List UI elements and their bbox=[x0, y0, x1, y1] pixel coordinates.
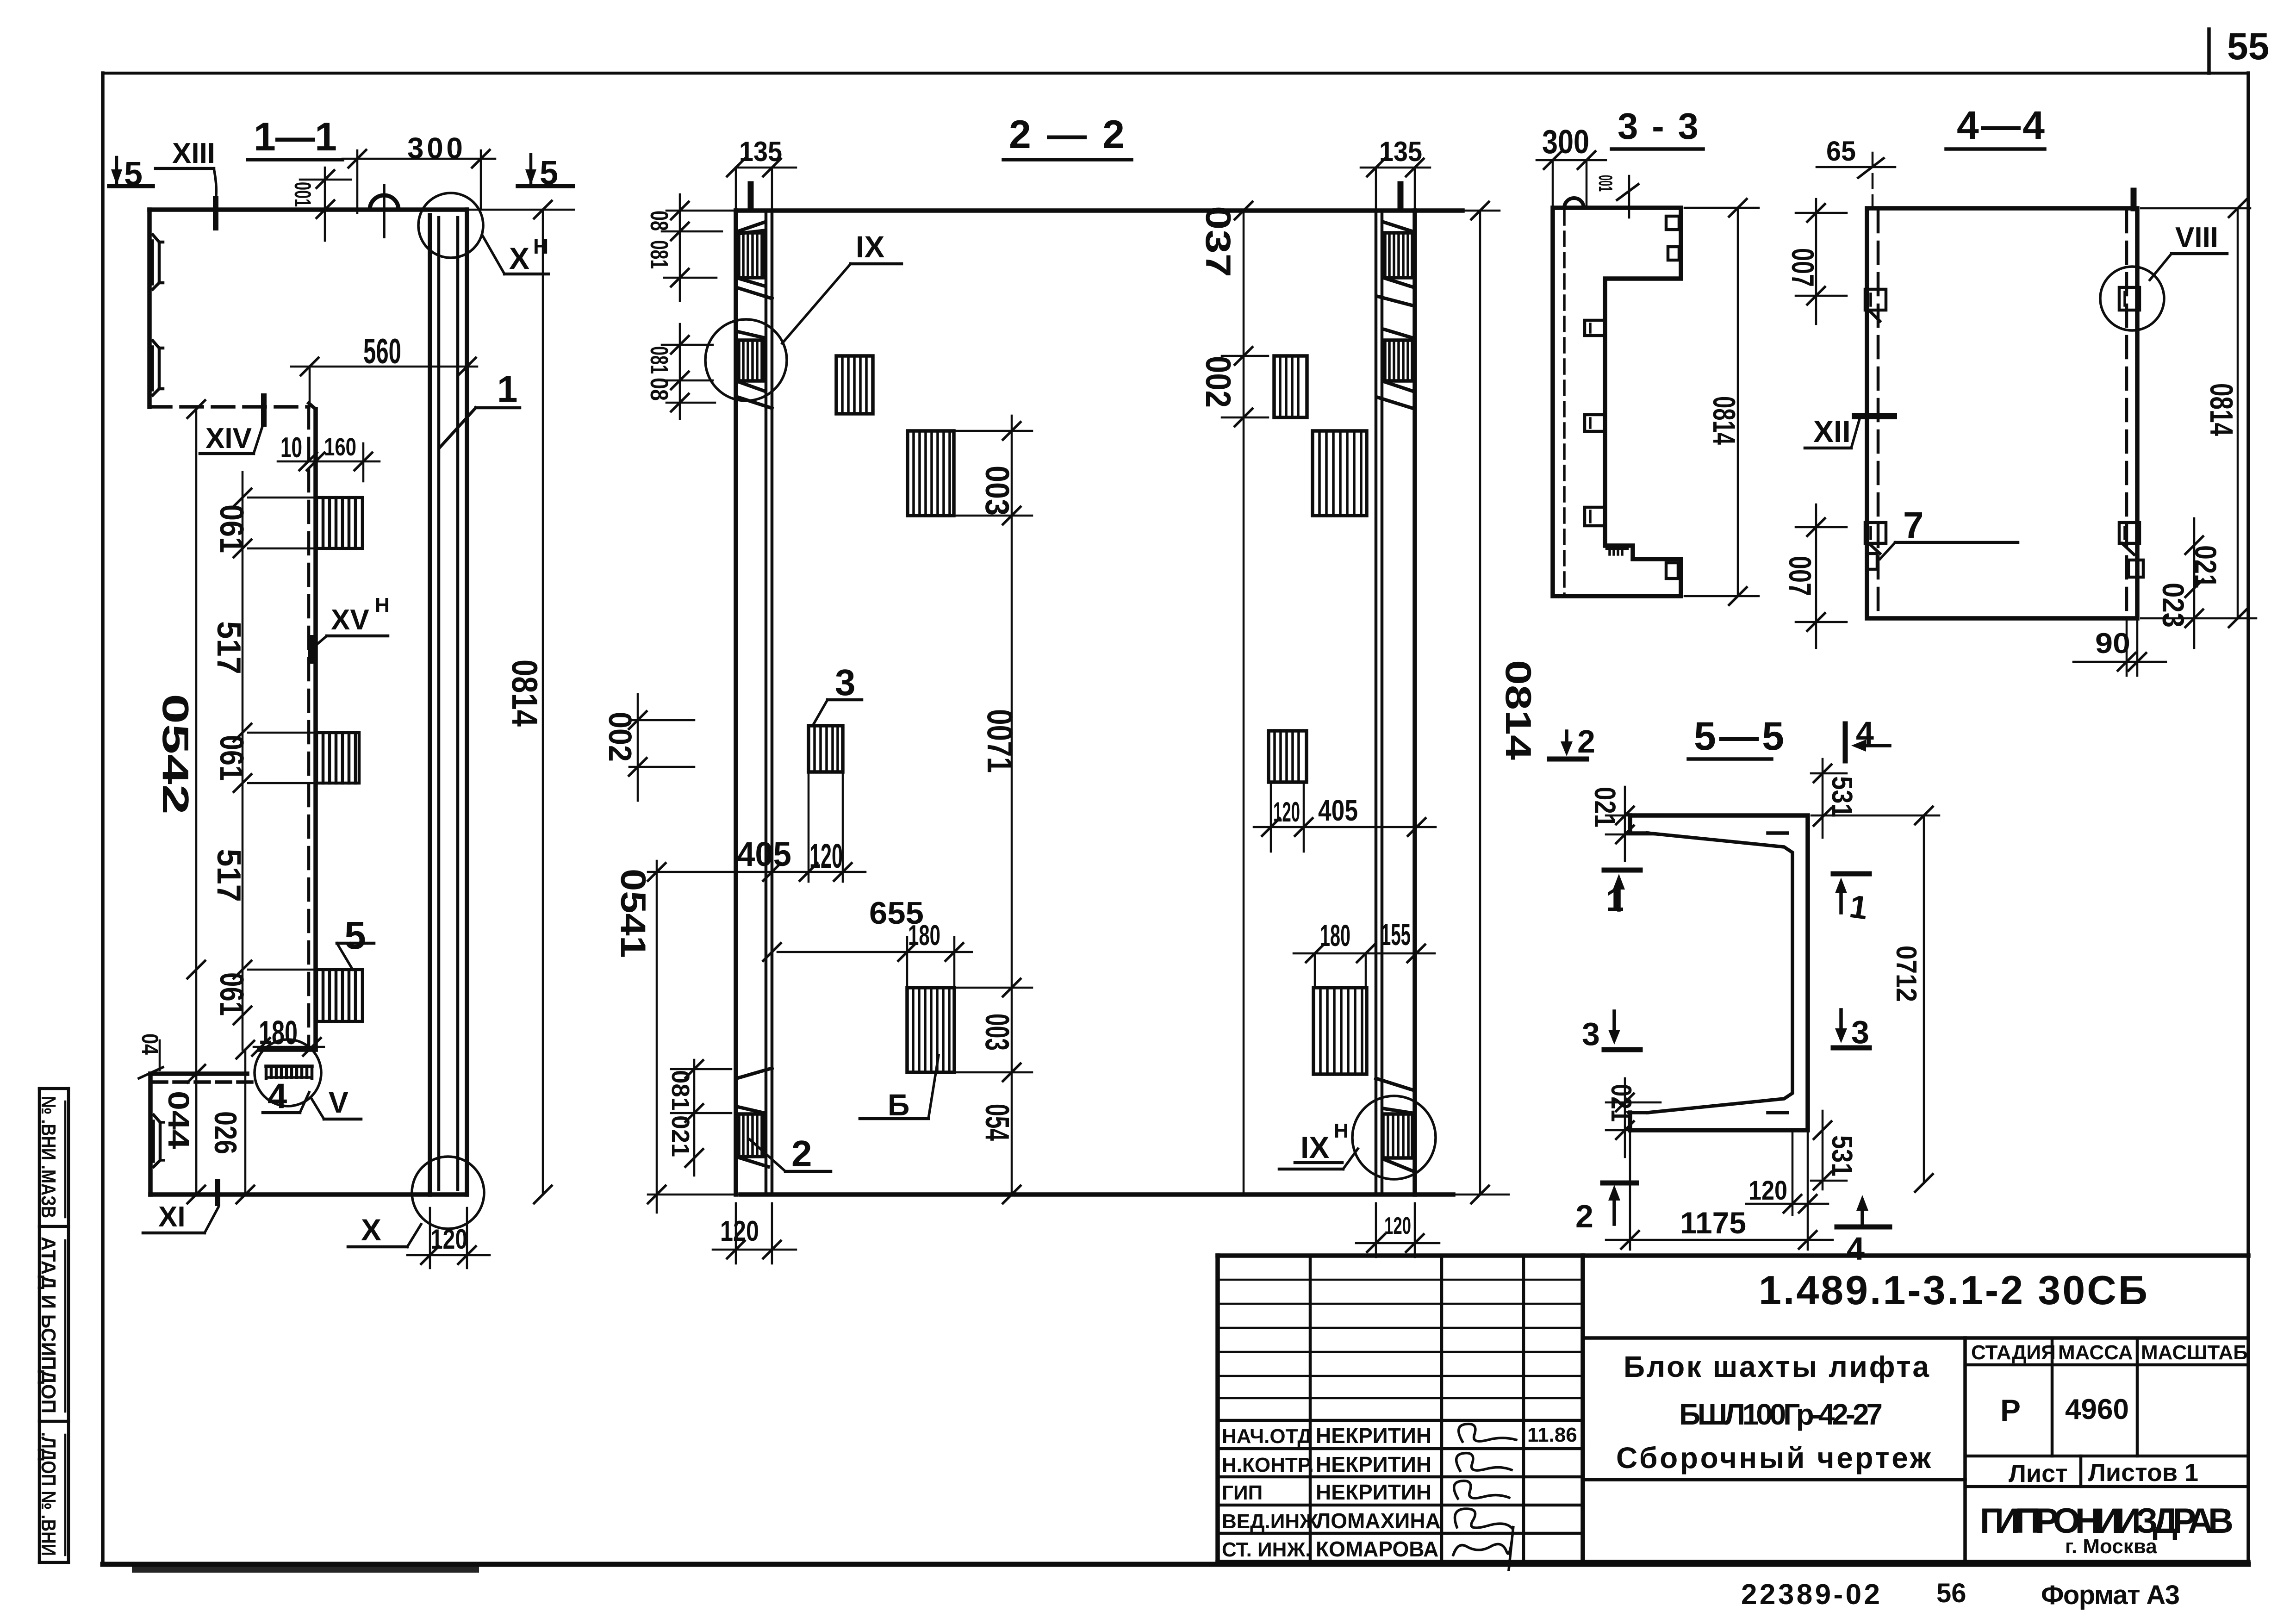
svg-text:СТ. ИНЖ.: СТ. ИНЖ. bbox=[1222, 1538, 1311, 1561]
svg-text:1175: 1175 bbox=[1680, 1206, 1746, 1240]
right big box bbox=[1313, 988, 1367, 1074]
svg-text:037: 037 bbox=[1198, 206, 1238, 277]
svg-text:Сборочный чертеж: Сборочный чертеж bbox=[1616, 1441, 1931, 1475]
step corner bbox=[309, 403, 316, 409]
svg-text:007: 007 bbox=[1785, 248, 1820, 287]
left chain dims 180 80 lower bbox=[679, 324, 681, 419]
svg-text:003: 003 bbox=[978, 466, 1015, 516]
big code cell bbox=[1583, 1336, 2248, 1340]
dim 4180 bbox=[1685, 207, 1759, 209]
svg-text:002: 002 bbox=[1198, 356, 1238, 408]
svg-text:КОМАРОВА: КОМАРОВА bbox=[1316, 1537, 1438, 1561]
svg-text:55: 55 bbox=[2227, 25, 2269, 68]
chain dim line x=524 bbox=[242, 472, 244, 1050]
svg-text:1 — 1: 1 — 1 bbox=[254, 115, 337, 159]
svg-text:0814: 0814 bbox=[504, 660, 545, 727]
lifting loop bbox=[370, 195, 398, 210]
small marks in web bbox=[1768, 831, 1787, 835]
stadia massa masshtab bbox=[1965, 1363, 2248, 1367]
toothed bit bottom bbox=[1607, 547, 1627, 550]
top edge of wall section bbox=[149, 207, 467, 212]
svg-text:XII: XII bbox=[1813, 414, 1851, 448]
svg-text:300: 300 bbox=[1542, 124, 1589, 161]
svg-text:120: 120 bbox=[809, 837, 843, 875]
svg-text:023: 023 bbox=[2156, 583, 2190, 628]
svg-text:XI: XI bbox=[158, 1201, 186, 1233]
svg-text:0814: 0814 bbox=[2203, 383, 2240, 436]
outer boxes bbox=[1218, 1253, 2248, 1258]
svg-text:Н: Н bbox=[1334, 1120, 1349, 1142]
svg-text:2: 2 bbox=[1575, 1198, 1593, 1234]
svg-text:НЕКРИТИН: НЕКРИТИН bbox=[1316, 1452, 1431, 1476]
detail circle IX bbox=[705, 319, 787, 401]
svg-text:0542: 0542 bbox=[155, 694, 196, 815]
svg-text:Лист: Лист bbox=[2009, 1460, 2068, 1487]
wall lower dashed bbox=[307, 407, 311, 1050]
svg-text:X: X bbox=[509, 241, 529, 275]
svg-text:021: 021 bbox=[1588, 787, 1622, 828]
section marker 5 right bbox=[518, 184, 573, 188]
svg-text:АТАД И ЬСИПДОП: АТАД И ЬСИПДОП bbox=[37, 1237, 60, 1413]
right strip verticals bbox=[1375, 211, 1378, 1195]
svg-text:517: 517 bbox=[210, 849, 247, 902]
overall dim 4180 right strip bbox=[1479, 211, 1481, 1195]
svg-text:3: 3 bbox=[1582, 1016, 1600, 1052]
svg-text:08: 08 bbox=[645, 378, 673, 401]
pin top right strip bbox=[1398, 184, 1404, 210]
hatched box 1 bbox=[317, 498, 362, 548]
right face clips + circle VIII bbox=[2119, 287, 2140, 310]
mid hatched box with 300 bbox=[908, 431, 954, 516]
svg-text:4: 4 bbox=[1847, 1231, 1865, 1267]
left clip A bbox=[153, 235, 159, 289]
svg-text:155: 155 bbox=[1381, 917, 1411, 952]
svg-text:5: 5 bbox=[540, 155, 558, 192]
pin top left strip bbox=[748, 184, 754, 210]
svg-text:IX: IX bbox=[856, 230, 884, 264]
top edge bbox=[736, 208, 1462, 213]
svg-text:0814: 0814 bbox=[1706, 396, 1742, 445]
left strip verticals bbox=[734, 211, 738, 1195]
bottom dashed edge of upper part bbox=[149, 405, 309, 409]
toothed bar detail 4 bbox=[266, 1066, 312, 1078]
svg-text:021: 021 bbox=[666, 1115, 694, 1157]
svg-text:Листов 1: Листов 1 bbox=[2088, 1459, 2198, 1487]
svg-text:531: 531 bbox=[1826, 1135, 1858, 1176]
dim 730 200 right bbox=[1243, 211, 1245, 1195]
svg-text:2 — 2: 2 — 2 bbox=[1009, 112, 1125, 157]
svg-text:405: 405 bbox=[1318, 794, 1358, 827]
bottom left bracket bbox=[150, 1071, 247, 1076]
svg-text:002: 002 bbox=[602, 712, 638, 762]
clips top flange bbox=[1666, 216, 1679, 230]
svg-text:Блок шахты лифта: Блок шахты лифта bbox=[1624, 1350, 1929, 1383]
svg-text:IX: IX bbox=[1300, 1130, 1329, 1164]
svg-text:0814: 0814 bbox=[1498, 660, 1539, 760]
svg-text:ЛОМАХИНА: ЛОМАХИНА bbox=[1316, 1509, 1441, 1533]
svg-text:V: V bbox=[329, 1086, 348, 1119]
svg-text:054: 054 bbox=[978, 1104, 1015, 1141]
detail circle XH bbox=[418, 193, 483, 258]
svg-text:120: 120 bbox=[1273, 796, 1300, 828]
title block bbox=[1218, 1256, 2248, 1570]
svg-text:XV: XV bbox=[331, 604, 369, 636]
profile outline bbox=[1553, 208, 1681, 596]
svg-text:ВЕД.ИНЖ: ВЕД.ИНЖ bbox=[1222, 1510, 1318, 1533]
wall bottom inner corner bbox=[259, 1047, 316, 1052]
svg-text:Н: Н bbox=[375, 594, 390, 616]
left dim chain 700/700 bbox=[1815, 199, 1817, 324]
dim 320 120 bbox=[2193, 518, 2196, 648]
svg-text:531: 531 bbox=[1826, 776, 1858, 817]
tick XIII bbox=[213, 199, 218, 228]
profile rectangle bbox=[1867, 208, 2137, 618]
svg-text:№ .ВНИ .МАЗВ: № .ВНИ .МАЗВ bbox=[37, 1096, 60, 1218]
right strip lower wedge/hatch in circle bbox=[1376, 1078, 1412, 1090]
svg-text:405: 405 bbox=[737, 835, 791, 873]
svg-text:4 — 4: 4 — 4 bbox=[1957, 103, 2045, 148]
hatched box 2 bbox=[317, 733, 359, 783]
svg-text:10: 10 bbox=[280, 432, 302, 464]
right strip wedges and hatch bbox=[1384, 222, 1412, 231]
list / listov bbox=[1965, 1455, 2248, 1458]
dim 200 left bbox=[637, 694, 639, 801]
loop bbox=[1564, 198, 1584, 208]
svg-text:3: 3 bbox=[1851, 1014, 1869, 1050]
svg-text:НАЧ.ОТД: НАЧ.ОТД bbox=[1222, 1425, 1312, 1448]
svg-text:Н: Н bbox=[533, 234, 548, 258]
svg-text:X: X bbox=[361, 1213, 381, 1247]
signatures squiggles bbox=[1459, 1424, 1516, 1442]
svg-text:XIV: XIV bbox=[205, 423, 252, 454]
svg-text:021: 021 bbox=[2189, 545, 2223, 588]
wall element 1 verticals bbox=[428, 215, 432, 1195]
svg-text:2: 2 bbox=[1577, 723, 1595, 759]
svg-text:120: 120 bbox=[1748, 1176, 1787, 1206]
dim 1450 bbox=[656, 861, 658, 1213]
svg-text:1.489.1-3.1-2 30СБ: 1.489.1-3.1-2 30СБ bbox=[1759, 1267, 2147, 1313]
svg-text:0712: 0712 bbox=[1890, 946, 1922, 1002]
left edge upper bbox=[147, 210, 152, 407]
wall lower solid bbox=[313, 409, 318, 1050]
svg-text:22389-02: 22389-02 bbox=[1741, 1579, 1880, 1611]
svg-text:СТАДИЯ: СТАДИЯ bbox=[1971, 1341, 2056, 1364]
svg-text:120: 120 bbox=[1384, 1213, 1411, 1239]
overall 2450 bbox=[195, 409, 198, 1195]
svg-text:90: 90 bbox=[2095, 628, 2130, 660]
svg-text:044: 044 bbox=[162, 1091, 195, 1149]
svg-text:1: 1 bbox=[497, 368, 518, 410]
svg-text:061: 061 bbox=[213, 504, 250, 553]
svg-text:VIII: VIII bbox=[2175, 222, 2218, 254]
pin top right bbox=[2131, 191, 2137, 208]
svg-text:.ЛДОП № .ВНИ: .ЛДОП № .ВНИ bbox=[37, 1432, 60, 1556]
left clip B bbox=[153, 341, 159, 395]
svg-text:65: 65 bbox=[1826, 136, 1856, 167]
dim 2170 right bbox=[1923, 815, 1925, 1183]
detail circle V bbox=[255, 1039, 321, 1106]
hatched box B bbox=[907, 988, 954, 1072]
svg-text:135: 135 bbox=[1379, 136, 1422, 167]
svg-text:3: 3 bbox=[835, 662, 856, 703]
svg-text:061: 061 bbox=[213, 972, 250, 1016]
dim 4180 right bbox=[2141, 207, 2250, 210]
svg-text:08: 08 bbox=[645, 211, 673, 231]
svg-text:4: 4 bbox=[268, 1076, 287, 1116]
svg-text:160: 160 bbox=[324, 433, 356, 461]
right mid box bbox=[1313, 431, 1367, 516]
name cell bbox=[1583, 1478, 1965, 1481]
chain 180 120 left bottom bbox=[693, 1060, 696, 1176]
svg-text:НЕКРИТИН: НЕКРИТИН bbox=[1316, 1424, 1431, 1448]
svg-text:026: 026 bbox=[208, 1111, 243, 1154]
left vertical column bbox=[37, 1089, 68, 1562]
svg-text:003: 003 bbox=[978, 1014, 1015, 1051]
dashed on web bbox=[1608, 277, 1675, 280]
svg-text:XIII: XIII bbox=[172, 137, 215, 169]
svg-text:МАССА: МАССА bbox=[2058, 1341, 2133, 1364]
signature table thin rows bbox=[1218, 1279, 1583, 1281]
bottom edge bbox=[150, 1192, 467, 1197]
svg-text:5 — 5: 5 — 5 bbox=[1694, 714, 1784, 759]
svg-text:Б: Б bbox=[888, 1088, 909, 1122]
clip bottom flange bbox=[1666, 563, 1678, 579]
hatched box 3 bbox=[317, 970, 362, 1021]
chain line x=2186 (300/1700/300/450) bbox=[1011, 416, 1013, 1195]
dashed verticals bbox=[1877, 211, 1880, 616]
right box at 405 level bbox=[1269, 731, 1307, 782]
svg-text:007: 007 bbox=[1782, 556, 1817, 596]
svg-text:560: 560 bbox=[363, 332, 401, 371]
signature rows bbox=[1218, 1419, 1583, 1422]
svg-text:3-3: 3-3 bbox=[1618, 106, 1699, 147]
svg-text:БШЛ100Гр-42-27: БШЛ100Гр-42-27 bbox=[1679, 1398, 1883, 1431]
svg-text:517: 517 bbox=[210, 621, 247, 674]
detail circle X bbox=[412, 1157, 484, 1229]
section marker 5 left bbox=[109, 184, 153, 188]
signature table columns bbox=[1309, 1256, 1312, 1562]
svg-text:5: 5 bbox=[124, 156, 143, 193]
small hatched box near IX bbox=[836, 356, 873, 414]
svg-text:120: 120 bbox=[720, 1215, 759, 1247]
svg-text:Н.КОНТР.: Н.КОНТР. bbox=[1222, 1454, 1314, 1476]
svg-text:4960: 4960 bbox=[2065, 1394, 2129, 1425]
inner dashed near left face bbox=[1563, 211, 1566, 594]
left strip bottom hatch + label 2 bbox=[737, 1068, 772, 1078]
svg-text:Р: Р bbox=[2000, 1393, 2021, 1427]
svg-text:081: 081 bbox=[645, 240, 673, 269]
svg-text:5: 5 bbox=[344, 914, 366, 957]
overall dim 4180 right bbox=[467, 209, 574, 211]
svg-text:МАСШТАБ: МАСШТАБ bbox=[2141, 1341, 2248, 1364]
svg-text:001: 001 bbox=[290, 182, 316, 207]
svg-text:2: 2 bbox=[791, 1133, 812, 1174]
bottom edge bbox=[740, 1192, 1453, 1197]
bottom margin texts bbox=[1741, 1578, 2180, 1611]
svg-text:56: 56 bbox=[1936, 1578, 1966, 1608]
svg-text:11.86: 11.86 bbox=[1527, 1424, 1577, 1446]
svg-text:ГИП: ГИП bbox=[1222, 1481, 1263, 1504]
svg-text:081: 081 bbox=[666, 1070, 694, 1111]
svg-text:061: 061 bbox=[213, 735, 250, 781]
right small box near 200 bbox=[1274, 356, 1307, 417]
svg-text:Формат А3: Формат А3 bbox=[2041, 1580, 2180, 1610]
svg-text:180: 180 bbox=[1320, 918, 1350, 952]
profile C shape opening left bbox=[1630, 815, 1808, 1130]
svg-text:НЕКРИТИН: НЕКРИТИН bbox=[1316, 1480, 1431, 1504]
page number 55 bbox=[2209, 25, 2269, 73]
detail circle IX H bbox=[1352, 1096, 1436, 1179]
svg-text:0071: 0071 bbox=[980, 709, 1020, 773]
svg-text:7: 7 bbox=[1903, 504, 1924, 546]
svg-text:г. Москва: г. Москва bbox=[2065, 1535, 2157, 1558]
svg-text:0541: 0541 bbox=[613, 869, 653, 958]
svg-text:081: 081 bbox=[645, 346, 673, 374]
left face clips bbox=[1865, 289, 1886, 310]
svg-text:001: 001 bbox=[1595, 175, 1617, 192]
clips web bbox=[1585, 320, 1605, 336]
left strip wedges and hatch boxes bbox=[738, 222, 765, 231]
left chain dims 80 180 top bbox=[679, 194, 681, 301]
